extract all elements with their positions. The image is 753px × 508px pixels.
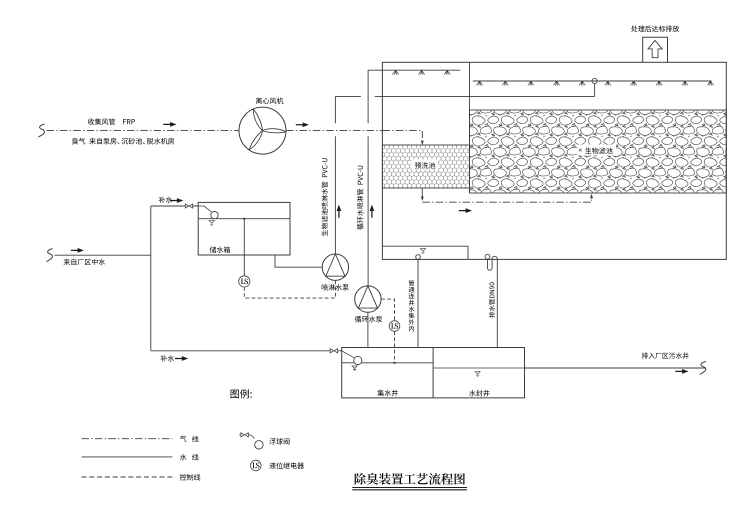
label 集水井 (378, 390, 398, 397)
legend LS relay symbol (251, 460, 262, 471)
valve float arm in storage tank (198, 206, 211, 212)
label 储水箱 (210, 246, 230, 252)
pipe biofilter feed riser to header (594, 84, 596, 97)
nozzles biofilter header x10 (477, 81, 714, 86)
wire gas collection duct (dash-dot) from break to fan (47, 130, 240, 132)
arrowhead gas into prewash pool (421, 141, 424, 146)
pipe circulation pump suction (367, 312, 369, 347)
pipe 内外集水井连通管 (417, 259, 419, 347)
water line in storage tank (198, 218, 290, 220)
legend gas line sample (dash-dot) (82, 438, 173, 440)
pump 循环水泵 (355, 286, 381, 312)
label 喷淋水泵 (322, 284, 349, 290)
pipe biofilter spray header (473, 80, 712, 82)
label 生物滤池 on white patch (577, 145, 616, 156)
junction riser connection on biofilter header (592, 78, 597, 83)
bed biofilter media (stone hatch) (470, 110, 727, 193)
wire control dashed LS1 to spray pump (244, 281, 335, 299)
wire water supply 来自厂区中水 (55, 254, 151, 256)
pipe supply riser (150, 206, 152, 351)
legend water line sample (82, 456, 173, 458)
wire gas passage under divider wall (dash-dot) (422, 189, 591, 203)
flow arrow water supply (71, 248, 84, 253)
valve makeup water bottom (330, 349, 337, 353)
pipe spray pump suction from tank (275, 255, 322, 267)
label 处理后达标排放 (631, 25, 679, 31)
pipe bottom makeup line to collecting well (151, 350, 342, 352)
wire control dashed pump2 to LS2 (381, 299, 394, 321)
label 浮球阀 (269, 438, 289, 444)
wall divider between prewash and biofilter (469, 62, 471, 193)
pipe circulation discharge vertical with gaps (367, 70, 369, 286)
flow arrow on gas duct after fan (296, 122, 309, 127)
symbol water level mark in storage tank (209, 221, 214, 226)
tank 集水井 collecting well (342, 348, 433, 398)
pipe break symbol at outlet (700, 361, 706, 374)
tank 储水箱 storage tank (198, 202, 290, 255)
label 图例: (231, 389, 252, 398)
flow arrow up on circulation pipe (370, 205, 375, 218)
symbol water level mark collecting well (352, 366, 357, 371)
label 水 线 (180, 454, 187, 460)
label 内外集水井连通管 (vertical stacked) (409, 280, 415, 331)
relay LS2 level switch (389, 321, 400, 332)
wire gas duct drop into prewash pool (dash-dot) (382, 131, 422, 142)
label 气 线 (180, 436, 187, 442)
wire outlet to plant sewage well (525, 367, 706, 369)
wire control dashed LS2 into sump (394, 331, 396, 363)
arrowhead gas up into biofilter (590, 194, 593, 199)
wire gas duct (dash-dot) from fan into scrubber box (286, 130, 382, 132)
label 臭气来源 (72, 138, 174, 144)
tank 水封井 water seal well (433, 348, 524, 398)
nozzle prewash 1 (393, 70, 399, 75)
arrowhead gas down at under-wall corner (421, 196, 424, 201)
label 离心风机 (256, 97, 283, 103)
valve float ball in storage tank (211, 211, 218, 218)
pipe prewash spray header (368, 69, 460, 71)
legend float valve symbol (239, 434, 241, 436)
relay LS1 level switch (239, 276, 250, 287)
label 预洗池 on white patch (412, 160, 439, 170)
valve float ball in collecting well (354, 356, 362, 364)
symbol water level mark in sump (420, 249, 425, 254)
water line in collecting well (342, 362, 433, 364)
label 排水管DN90 (vertical) (489, 282, 495, 317)
wire LS1 sensor line (243, 219, 245, 276)
pump 喷淋水泵 (322, 254, 348, 280)
water line in seal well (433, 367, 524, 369)
pipe drain trap U-bend (488, 256, 498, 270)
title underline double (352, 487, 467, 489)
label 补水 bottom (161, 355, 175, 361)
label 水封井 (469, 390, 489, 397)
label 收集风管 FRP (88, 118, 135, 124)
junction dot LS2 on sump water line (393, 362, 395, 364)
junction dot LS sensor on tank water line (243, 218, 245, 220)
label 来自厂区中水 (64, 259, 106, 265)
tank scrubber housing outer box (382, 62, 726, 259)
legend control line sample (dashed) (82, 476, 173, 478)
label 控制线 (180, 474, 201, 480)
valve float arm in collecting well (342, 351, 354, 358)
flow arrow makeup bottom (175, 356, 188, 361)
valve makeup water top (185, 204, 192, 208)
drain fitting circle to collecting well (416, 255, 421, 260)
pipe biofilter feed horizontal with crossing gap (335, 95, 594, 97)
pipe break symbol at gas duct inlet (38, 124, 44, 137)
symbol water level mark seal well (475, 372, 480, 377)
pipe top makeup branch to tank (151, 205, 198, 207)
flow arrow outlet (675, 369, 688, 374)
label 循环水泵 (355, 316, 383, 322)
fan 离心风机 centrifugal fan symbol (239, 107, 286, 154)
flow arrow up on spray pipe (337, 205, 342, 218)
bed prewash pool packing (honeycomb hatch) (382, 145, 469, 188)
nozzle prewash 2 (419, 70, 425, 75)
flow arrow gas passage under wall (459, 208, 472, 213)
stack exhaust chimney (643, 37, 668, 62)
symbol discharge up-arrow (hollow) (648, 40, 662, 57)
label 生物滤池喷淋水管 PVC-U (vertical) (321, 158, 327, 236)
label title 除臭装置工艺流程图 (355, 473, 465, 485)
label 液位继电器 (269, 462, 304, 468)
flow arrow makeup top (170, 198, 183, 203)
flow arrow on gas duct before fan (163, 122, 176, 127)
pipe 排水管DN90 drop (496, 259, 498, 348)
pipe break symbol at water supply inlet (46, 249, 52, 262)
label 排入厂区污水井 (642, 352, 689, 358)
tank internal sump of scrubber box (382, 246, 468, 259)
label 循环水喷淋管 PVC-U (vertical) (357, 166, 363, 230)
pipe spray pump discharge vertical with gas-line gap (334, 96, 336, 254)
nozzle prewash 3 (444, 70, 450, 75)
drain fitting circle to seal well (485, 254, 490, 259)
label 补水 top (159, 197, 173, 203)
